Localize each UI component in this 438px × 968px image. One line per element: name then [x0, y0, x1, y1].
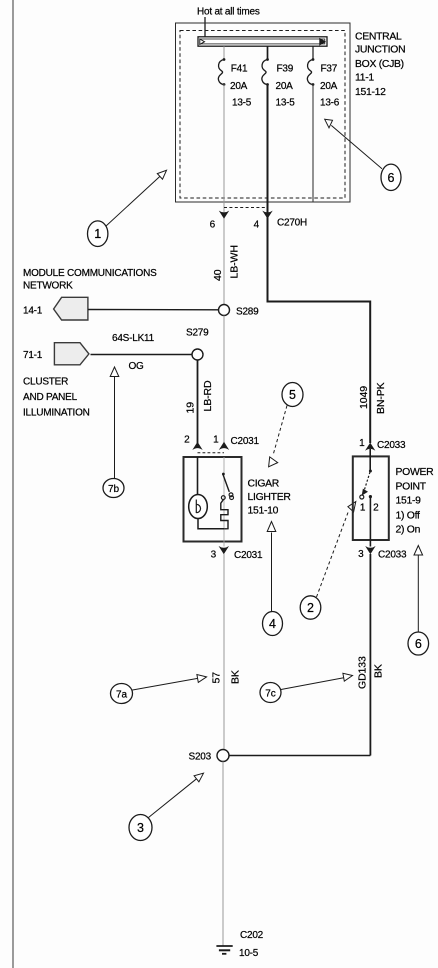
pin 1 arrow	[219, 442, 229, 450]
callout 3 arrow	[149, 773, 204, 817]
svg-text:64S-LK11: 64S-LK11	[112, 333, 155, 344]
callout 7b arrow	[110, 367, 119, 478]
ground G202	[216, 946, 232, 954]
wire bus to fuse F39	[267, 46, 269, 59]
svg-text:13-6: 13-6	[320, 98, 340, 109]
svg-text:1: 1	[359, 438, 365, 449]
svg-text:LB-WH: LB-WH	[229, 245, 241, 278]
svg-text:C2033: C2033	[378, 550, 407, 561]
svg-text:4: 4	[254, 220, 260, 231]
fuse F41	[218, 58, 225, 86]
svg-text:3: 3	[358, 549, 364, 560]
svg-text:5: 5	[289, 388, 296, 402]
svg-text:BK: BK	[230, 670, 242, 684]
cigar lighter lamp	[189, 495, 208, 519]
callout 2	[300, 596, 321, 619]
power point switch lever	[362, 470, 372, 496]
svg-text:1: 1	[360, 503, 366, 514]
splice S289	[219, 305, 230, 316]
cigar lighter lamp return wire	[198, 519, 225, 529]
svg-text:LIGHTER: LIGHTER	[248, 492, 292, 503]
power point pin 1 arrow	[365, 443, 375, 451]
svg-text:F39: F39	[277, 64, 294, 75]
connector C270H dashed link	[224, 207, 268, 209]
wire F39 to pin 4	[267, 85, 269, 219]
svg-text:1: 1	[94, 227, 101, 241]
central junction box dashed border	[180, 31, 345, 199]
svg-text:BOX (CJB): BOX (CJB)	[355, 59, 404, 70]
cigar lighter internal feed (pin1 to pin3 pale wire)	[223, 457, 225, 547]
svg-text:3: 3	[211, 550, 217, 561]
svg-text:151-12: 151-12	[355, 87, 386, 98]
svg-text:Hot at all times: Hot at all times	[197, 7, 260, 18]
svg-text:20A: 20A	[276, 81, 294, 92]
svg-text:3: 3	[137, 821, 144, 835]
bus bar	[198, 37, 327, 46]
wire power point pin3 to S203	[369, 554, 371, 756]
svg-text:2: 2	[373, 503, 379, 514]
svg-text:1049: 1049	[358, 386, 370, 409]
svg-text:151-9: 151-9	[396, 496, 422, 507]
wire bus to fuse F37	[312, 46, 314, 59]
power point pin 3 arrow	[365, 546, 375, 554]
svg-text:NETWORK: NETWORK	[23, 281, 73, 292]
cigar lighter pin2 internal wire	[197, 457, 199, 495]
callout 7a	[111, 684, 133, 704]
svg-text:20A: 20A	[230, 81, 248, 92]
svg-text:1: 1	[213, 435, 219, 446]
svg-text:20A: 20A	[320, 81, 338, 92]
svg-text:ILLUMINATION: ILLUMINATION	[23, 408, 90, 419]
svg-text:2: 2	[307, 601, 314, 615]
svg-text:7a: 7a	[116, 689, 128, 700]
wire S279 to cigar lighter pin 2	[197, 360, 199, 443]
svg-text:10-5: 10-5	[239, 948, 259, 959]
callout 6 bottom	[408, 632, 429, 655]
wire F41 to pin 6	[223, 85, 225, 219]
label CENTRAL JUNCTION BOX (CJB) 11-1 151-12	[355, 32, 405, 99]
svg-text:C270H: C270H	[277, 218, 307, 229]
off-page connector 71-1	[54, 343, 89, 365]
svg-text:CLUSTER: CLUSTER	[23, 377, 68, 388]
wire F37 stub	[312, 85, 314, 203]
svg-text:7c: 7c	[265, 688, 276, 699]
svg-text:POINT: POINT	[396, 482, 427, 493]
label CIGAR LIGHTER 151-10	[248, 479, 292, 517]
central junction box outer border	[176, 23, 351, 202]
power point output wire	[369, 498, 371, 547]
splice S279	[192, 349, 203, 360]
callout 3	[129, 815, 152, 841]
callout 6 bottom arrow	[414, 546, 423, 632]
wire S289 to cigar lighter pin 1	[223, 316, 225, 444]
pin 2 arrow	[192, 442, 202, 450]
svg-text:S279: S279	[186, 328, 209, 339]
svg-text:57: 57	[211, 672, 223, 684]
callout 6 top arrow	[325, 119, 382, 169]
svg-text:C2031: C2031	[231, 436, 260, 447]
svg-text:BN-PK: BN-PK	[375, 382, 387, 414]
label MODULE COMMUNICATIONS NETWORK	[23, 268, 157, 292]
svg-text:2: 2	[184, 435, 190, 446]
off-page connector 14-1	[54, 297, 88, 320]
svg-text:1) Off: 1) Off	[396, 511, 421, 522]
wire 14-1 to S289	[88, 309, 219, 311]
svg-text:S289: S289	[236, 307, 259, 318]
callout 1 arrow	[105, 170, 167, 227]
svg-text:13-5: 13-5	[232, 98, 252, 109]
svg-text:C2033: C2033	[377, 440, 406, 451]
svg-text:6: 6	[415, 637, 422, 651]
svg-text:2) On: 2) On	[396, 525, 421, 536]
svg-text:40: 40	[212, 269, 224, 281]
label POWER POINT 151-9 1) Off 2) On	[396, 467, 435, 536]
label F39 20A 13-5	[276, 64, 296, 109]
svg-text:151-10: 151-10	[248, 506, 279, 517]
power point feed stub	[369, 449, 371, 471]
svg-text:19: 19	[185, 402, 197, 414]
callout 7c	[260, 683, 281, 703]
page left border	[12, 0, 14, 968]
power point contact 2	[369, 495, 372, 498]
callout 6 top	[381, 164, 401, 190]
callout 7c arrow	[281, 673, 353, 689]
pin 3 arrow C2031	[219, 546, 229, 554]
svg-text:MODULE COMMUNICATIONS: MODULE COMMUNICATIONS	[23, 268, 157, 279]
svg-text:F37: F37	[321, 64, 338, 75]
power point case	[353, 456, 389, 540]
callout 7a arrow	[133, 675, 207, 691]
fuse F39	[262, 58, 269, 86]
svg-text:OG: OG	[129, 361, 145, 372]
label F37 20A 13-6	[320, 64, 340, 109]
svg-text:13-5: 13-5	[276, 98, 296, 109]
wire bus to fuse F41	[223, 46, 225, 59]
splice S203	[217, 750, 229, 762]
svg-text:F41: F41	[231, 64, 248, 75]
callout 5	[282, 383, 303, 407]
label F41 20A 13-5	[230, 64, 252, 109]
svg-text:6: 6	[388, 171, 395, 185]
cigar lighter case	[184, 457, 242, 542]
svg-text:4: 4	[269, 617, 276, 631]
svg-text:GD133: GD133	[357, 656, 369, 689]
svg-text:71-1: 71-1	[23, 350, 43, 361]
svg-text:LB-RD: LB-RD	[202, 380, 214, 412]
svg-text:7b: 7b	[108, 484, 120, 495]
svg-text:C2031: C2031	[234, 550, 263, 561]
callout 5 dashed arrow	[269, 406, 287, 467]
svg-text:AND PANEL: AND PANEL	[23, 392, 78, 403]
callout 4 arrow	[267, 522, 276, 612]
svg-text:6: 6	[210, 220, 216, 231]
callout 7b	[103, 479, 124, 498]
svg-text:11-1: 11-1	[355, 73, 374, 84]
cigar lighter bimetal switch	[221, 473, 233, 500]
svg-text:JUNCTION: JUNCTION	[355, 45, 405, 56]
label CLUSTER AND PANEL ILLUMINATION	[23, 377, 90, 419]
svg-text:BK: BK	[373, 664, 385, 678]
cigar lighter heating element	[221, 500, 228, 529]
wire S203 to ground	[222, 762, 224, 946]
callout 1	[88, 221, 108, 247]
fuse F37	[307, 58, 314, 86]
svg-text:S203: S203	[189, 752, 212, 763]
svg-text:CIGAR: CIGAR	[248, 479, 280, 490]
wire C270H pin4 to power point pin 1	[268, 219, 371, 444]
power point contact 1	[360, 495, 364, 499]
svg-text:14-1: 14-1	[23, 306, 43, 317]
callout 2 dashed arrow	[317, 502, 356, 597]
wire pin6 to S289	[223, 219, 225, 305]
wire cigar pin3 to S203	[223, 554, 225, 750]
wire S203 to power point branch	[229, 755, 370, 757]
pin 4 arrow C270H	[262, 211, 272, 219]
svg-text:C202: C202	[240, 930, 264, 941]
connector C2031 dashed link	[198, 452, 225, 454]
svg-text:POWER: POWER	[396, 467, 435, 478]
wire hot feed into bus	[204, 17, 206, 37]
pin 6 arrow C270H	[219, 211, 229, 219]
svg-text:CENTRAL: CENTRAL	[355, 32, 402, 43]
callout 4	[263, 612, 283, 636]
wire 71-1 to S279	[91, 354, 193, 356]
